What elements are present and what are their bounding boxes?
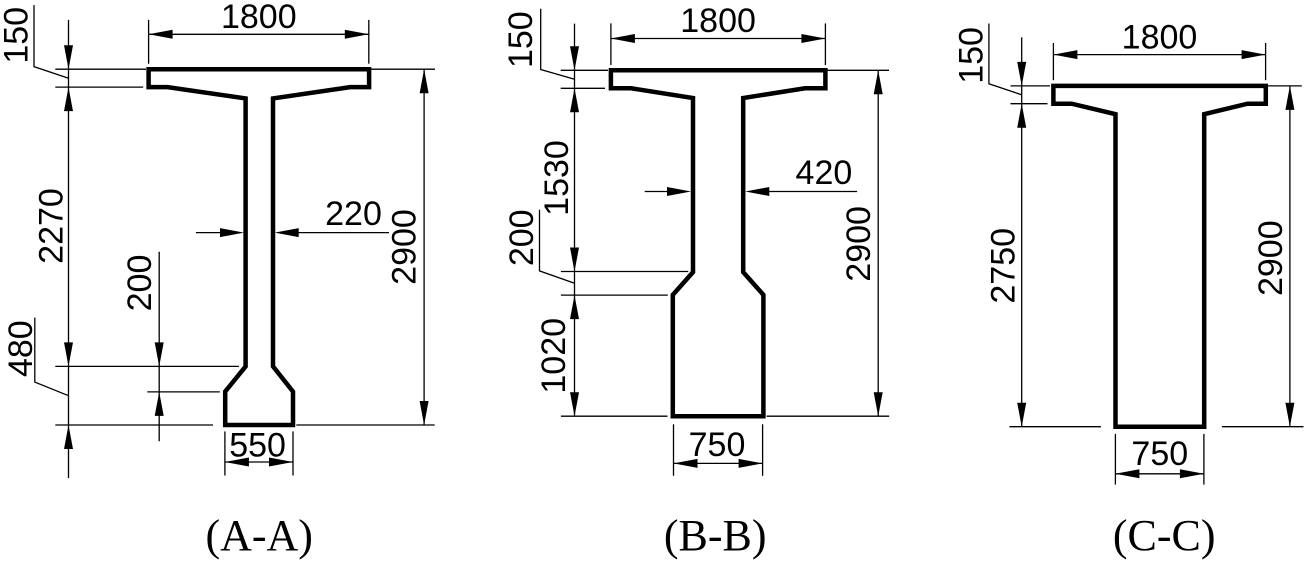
label 2750 web height (C-C): [984, 228, 1022, 304]
dimension 220 web width (A-A): [196, 195, 389, 237]
dimension 420 web width (B-B): [645, 154, 857, 196]
left dimension line chain 150/1530/200/1020 (B-B): [570, 24, 579, 417]
svg-text:1800: 1800: [680, 2, 756, 40]
svg-text:(C-C): (C-C): [1113, 511, 1216, 560]
section C-C beam outline (T-section with straight wide web): [1053, 86, 1265, 427]
svg-text:1800: 1800: [1122, 18, 1198, 56]
dimension 2900 total height (A-A): [369, 69, 435, 425]
bottom datum line (B-B): [561, 415, 889, 417]
left dimension line chain 150/2750 (C-C): [1017, 37, 1026, 426]
label 200 transition height with leader (B-B): [503, 209, 575, 283]
dimension 1800 top width (C-C): [1053, 18, 1265, 80]
caption (A-A): [205, 511, 313, 560]
label 2270 web height (A-A): [32, 188, 70, 264]
left dimension line chain 150/2270/480 (A-A): [64, 20, 73, 478]
dimension 2900 total height (C-C): [1252, 86, 1302, 427]
svg-text:550: 550: [229, 426, 286, 464]
label 1530 web height (B-B): [538, 140, 576, 216]
extension lines flange top/bottom left (C-C): [1011, 86, 1051, 104]
extension lines flange top/bottom left (A-A): [55, 69, 146, 87]
label 150 flange thickness with leader (A-A): [0, 5, 69, 78]
caption (C-C): [1113, 511, 1216, 560]
dimension 750 block width (B-B): [674, 424, 763, 476]
caption (B-B): [664, 511, 767, 560]
svg-text:150: 150: [502, 11, 540, 68]
label 150 flange thickness with leader (B-B): [502, 9, 575, 80]
dimension 750 web width (C-C): [1115, 434, 1204, 485]
dimension 550 bulb width (A-A): [225, 426, 293, 475]
svg-text:150: 150: [0, 7, 36, 64]
bottom datum line (A-A): [55, 424, 434, 426]
extension line web bottom (B-B): [561, 271, 688, 273]
bottom datum line (C-C): [1009, 426, 1303, 428]
dimension 1800 top width (B-B): [611, 2, 826, 65]
dimension 1800 top width (A-A): [149, 0, 369, 64]
svg-text:(B-B): (B-B): [664, 511, 767, 560]
svg-text:150: 150: [953, 27, 991, 84]
label 480 bulb height with leader (A-A): [2, 318, 69, 396]
extension lines flange top/bottom left (B-B): [561, 70, 608, 88]
section B-B beam outline (T-girder with widened lower block): [611, 70, 826, 416]
svg-text:200: 200: [121, 255, 159, 312]
svg-text:750: 750: [1131, 435, 1188, 473]
svg-text:1020: 1020: [535, 318, 573, 394]
svg-text:2900: 2900: [840, 206, 878, 282]
label 150 flange thickness with leader (C-C): [953, 24, 1022, 95]
svg-text:2750: 2750: [984, 228, 1022, 304]
label 1020 block height (B-B): [535, 318, 573, 394]
section A-A beam outline (T-girder with bottom bulb): [149, 69, 370, 425]
svg-text:(A-A): (A-A): [205, 511, 313, 560]
dimension 2900 total height (B-B): [825, 70, 889, 416]
svg-text:2900: 2900: [1252, 220, 1290, 296]
svg-text:2900: 2900: [386, 209, 424, 285]
svg-text:750: 750: [689, 426, 746, 464]
svg-text:200: 200: [503, 209, 541, 266]
dimension 200 bulb taper height (A-A): [121, 252, 164, 442]
svg-text:220: 220: [325, 195, 382, 233]
svg-text:420: 420: [796, 154, 853, 192]
svg-text:1800: 1800: [221, 0, 297, 36]
extension line bulb top (A-A): [55, 365, 239, 367]
svg-text:2270: 2270: [32, 188, 70, 264]
extension line taper bottom for 200 (A-A): [147, 391, 220, 393]
extension line block top (B-B): [561, 294, 668, 296]
svg-text:1530: 1530: [538, 140, 576, 216]
